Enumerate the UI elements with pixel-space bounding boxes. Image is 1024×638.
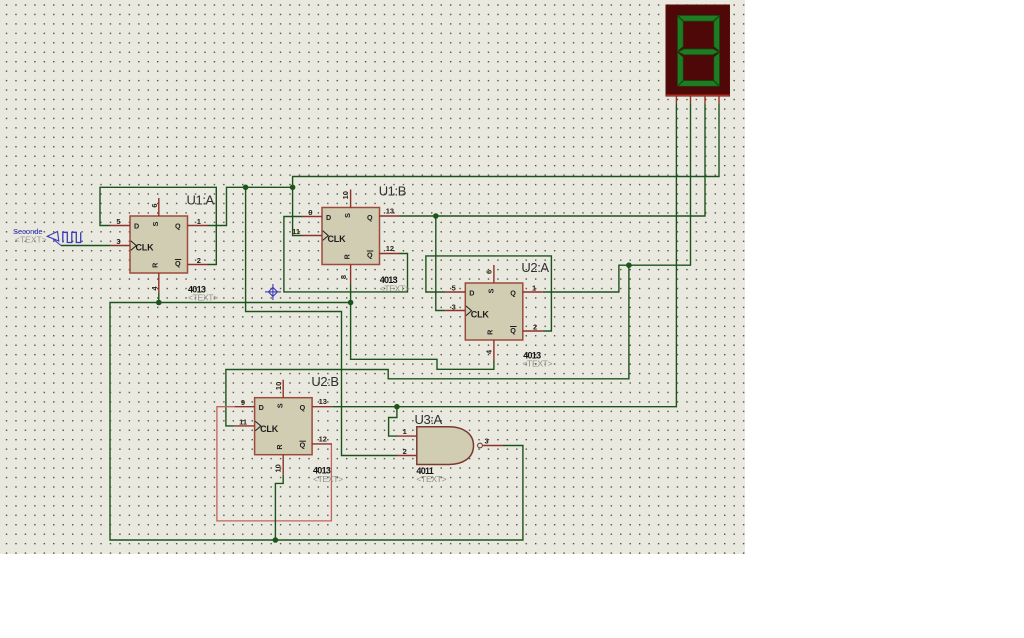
wire: reset rail branch to U2:A R bbox=[351, 303, 494, 370]
wire: U2:B D to Qbar feedback loop (red) bbox=[217, 407, 332, 521]
segment d bbox=[678, 81, 719, 87]
grid dot background bbox=[0, 0, 745, 554]
wire: Q3 branch to U3:A pin1 bbox=[389, 407, 397, 436]
svg-text:S: S bbox=[343, 213, 352, 218]
svg-text:Q: Q bbox=[300, 441, 306, 450]
svg-text:1: 1 bbox=[403, 427, 407, 436]
svg-text:Q: Q bbox=[510, 326, 516, 335]
wire: U1:B R to rail bbox=[350, 285, 352, 303]
wire: U2:A D to Qbar feedback loop bbox=[426, 256, 552, 331]
flip-flop U1:B (4013) bbox=[302, 190, 400, 285]
wire: U2:B Q net (bit3) to 7seg pin1 bbox=[332, 104, 676, 407]
wire: Q2 branch to U2:B CLK bbox=[226, 265, 629, 426]
svg-text:S: S bbox=[486, 288, 495, 293]
svg-text:6: 6 bbox=[150, 203, 159, 207]
wire: Q0 branch down to U3:A pin2 bbox=[246, 187, 397, 455]
wire: U1:A D to Qbar feedback loop bbox=[100, 187, 216, 264]
svg-text:<TEXT>: <TEXT> bbox=[416, 474, 446, 484]
svg-text:U1:B: U1:B bbox=[379, 184, 406, 199]
wire: Q0 branch to U1:B CLK bbox=[293, 187, 302, 235]
svg-text:D: D bbox=[469, 289, 474, 298]
svg-text:D: D bbox=[259, 403, 264, 412]
node: junction on Q1 at x=435.8 bbox=[433, 213, 439, 219]
svg-text:D: D bbox=[326, 213, 331, 222]
svg-text:CLK: CLK bbox=[471, 310, 490, 320]
svg-text:Q: Q bbox=[300, 403, 306, 412]
svg-text:R: R bbox=[342, 253, 351, 259]
svg-text:Q: Q bbox=[510, 289, 516, 298]
svg-text:13: 13 bbox=[319, 397, 327, 406]
svg-text:12: 12 bbox=[319, 435, 327, 444]
svg-text:13: 13 bbox=[386, 207, 394, 216]
clock generator Seconde bbox=[13, 227, 81, 246]
svg-text:Q: Q bbox=[175, 259, 181, 268]
segment b bbox=[714, 16, 720, 51]
wire: U1:B Q net (bit1) to 7seg pin3 bbox=[400, 104, 706, 216]
svg-text:Q: Q bbox=[175, 222, 181, 231]
svg-text:5: 5 bbox=[116, 217, 120, 226]
svg-text:2: 2 bbox=[197, 256, 201, 265]
7-segment display bbox=[666, 5, 730, 104]
svg-text:10: 10 bbox=[341, 191, 350, 199]
segment e bbox=[678, 52, 684, 85]
segment g bbox=[678, 49, 718, 55]
svg-text:10: 10 bbox=[274, 382, 283, 390]
svg-text:6: 6 bbox=[484, 270, 493, 274]
svg-text:12: 12 bbox=[386, 244, 394, 253]
svg-text:CLK: CLK bbox=[260, 424, 279, 434]
wire: U1:A R to rail bbox=[158, 293, 160, 303]
svg-text:R: R bbox=[486, 329, 495, 335]
node: junction on Q3 at x=396.9 bbox=[394, 404, 400, 410]
svg-text:3: 3 bbox=[485, 437, 489, 446]
wire: U2:A Q net (bit2) to 7seg pin2 bbox=[543, 104, 691, 292]
wire: Q1 branch to U2:A CLK bbox=[436, 216, 446, 311]
wire: clock source to U1:A CLK bbox=[61, 245, 110, 247]
segment c bbox=[714, 52, 720, 85]
display pin stubs bbox=[675, 96, 677, 104]
svg-text:2: 2 bbox=[533, 322, 537, 331]
svg-text:R: R bbox=[275, 444, 284, 450]
wire: U1:B D to Qbar feedback loop bbox=[284, 217, 408, 292]
svg-text:<TEXT>: <TEXT> bbox=[522, 359, 552, 369]
svg-text:<TEXT>: <TEXT> bbox=[188, 293, 218, 303]
node: junction bottom rail at U2:B R bbox=[273, 537, 279, 543]
wire: reset rail upper (R pins of U1:A U1:B) bbox=[110, 303, 523, 541]
svg-text:R: R bbox=[150, 262, 159, 268]
svg-text:1: 1 bbox=[532, 284, 536, 293]
svg-text:9: 9 bbox=[241, 398, 245, 407]
flip-flop U2:B (4013) bbox=[235, 380, 333, 475]
svg-text:U3:A: U3:A bbox=[415, 412, 443, 427]
node: junction on Q2 at x=628.9 bbox=[626, 262, 632, 268]
svg-text:Q: Q bbox=[367, 213, 373, 222]
svg-text:D: D bbox=[134, 222, 139, 231]
node: junction on Q0 at x=292.6 bbox=[290, 185, 296, 191]
node: junction reset rail at U1:A R bbox=[156, 300, 162, 306]
svg-text:U1:A: U1:A bbox=[187, 193, 215, 208]
svg-text:<TEXT>: <TEXT> bbox=[313, 474, 343, 484]
nand gate U3:A (4011) bbox=[397, 427, 503, 465]
svg-text:CLK: CLK bbox=[328, 234, 347, 244]
wire: U1:A Q net (bit0) to 7seg pin4 bbox=[208, 104, 720, 226]
svg-text:S: S bbox=[276, 403, 285, 408]
svg-text:Q: Q bbox=[367, 251, 373, 260]
svg-text:10: 10 bbox=[274, 464, 283, 472]
svg-text:2: 2 bbox=[403, 447, 407, 456]
svg-text:U2:A: U2:A bbox=[521, 260, 549, 275]
svg-text:11: 11 bbox=[239, 418, 247, 427]
svg-text:CLK: CLK bbox=[136, 243, 155, 253]
flip-flop U2:A (4013) bbox=[445, 265, 543, 361]
svg-text:3: 3 bbox=[452, 302, 456, 311]
flip-flop U1:A (4013) bbox=[110, 198, 208, 293]
svg-text:11: 11 bbox=[292, 227, 300, 236]
svg-text:U2:B: U2:B bbox=[311, 374, 338, 389]
segment a bbox=[678, 16, 719, 22]
segment f bbox=[678, 16, 684, 51]
svg-text:8: 8 bbox=[339, 275, 348, 279]
svg-text:<TEXT>: <TEXT> bbox=[15, 234, 47, 244]
svg-text:1: 1 bbox=[197, 217, 201, 226]
svg-text:9: 9 bbox=[308, 208, 312, 217]
node: junction reset rail at U1:B R bbox=[348, 300, 354, 306]
svg-text:S: S bbox=[151, 221, 160, 226]
origin marker bbox=[265, 284, 281, 300]
svg-text:3: 3 bbox=[116, 237, 120, 246]
node: junction on Q0 at x=245.6 bbox=[243, 185, 249, 191]
wire: U2:B R jog to bottom rail bbox=[275, 475, 283, 540]
svg-text:<TEXT>: <TEXT> bbox=[380, 283, 410, 293]
svg-text:5: 5 bbox=[452, 284, 456, 293]
